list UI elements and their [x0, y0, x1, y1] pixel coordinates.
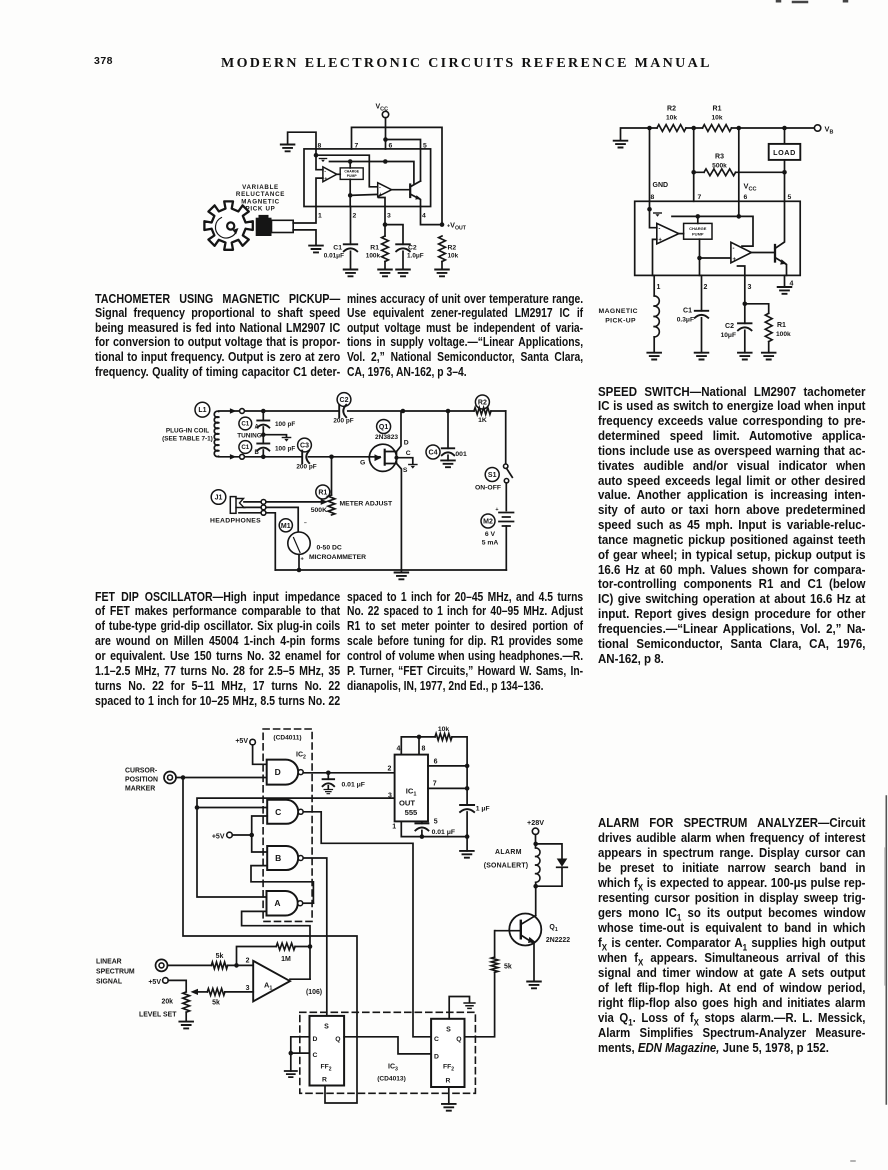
pin 5 label	[788, 194, 792, 201]
connector sleeve	[261, 510, 266, 515]
label VCC	[744, 182, 757, 193]
node Vout	[440, 222, 445, 227]
svg-text:3: 3	[246, 985, 250, 992]
svg-text:R1: R1	[713, 106, 722, 113]
label C1B	[239, 441, 260, 456]
svg-text:5k: 5k	[216, 953, 224, 960]
node R3 right	[782, 170, 787, 175]
svg-text:+: +	[733, 257, 737, 263]
wire gate C upper input	[197, 807, 267, 809]
wire +5V to gate D	[253, 745, 267, 764]
wire pot to ground	[179, 1012, 193, 1028]
label alarm	[484, 849, 529, 870]
svg-text:R1: R1	[777, 322, 786, 329]
wiper arrow R1	[321, 499, 328, 505]
connector tip	[261, 500, 266, 505]
label GND	[653, 182, 669, 189]
node pin8 rail	[417, 735, 422, 740]
pin 2 label A1	[246, 958, 250, 965]
svg-text:7: 7	[698, 194, 702, 201]
wire pump bottom to pin 2	[349, 179, 351, 206]
svg-text:5: 5	[788, 194, 792, 201]
svg-text:6 V: 6 V	[485, 531, 496, 538]
resistor 10k	[435, 726, 452, 740]
meter M1 microammeter	[288, 521, 366, 571]
wire lss to 5k	[168, 964, 212, 966]
node feedback join	[308, 944, 313, 949]
wire pin6	[428, 765, 467, 767]
label G	[360, 460, 365, 467]
svg-text:+5V: +5V	[212, 834, 225, 841]
wire diode branch bottom	[536, 882, 562, 915]
capacitor C2 200pF	[333, 405, 353, 425]
svg-text:POSITION: POSITION	[125, 776, 158, 783]
svg-text:C: C	[434, 1036, 439, 1043]
svg-text:MARKER: MARKER	[125, 785, 155, 792]
wire pin2 down	[350, 207, 352, 245]
transistor Q1 2N2222	[495, 914, 541, 982]
pin 6 label	[744, 194, 748, 201]
wire pin8 vertical	[649, 128, 651, 209]
capacitor C1 0.3uF	[677, 308, 708, 324]
wire 1uF down	[466, 812, 468, 837]
node cursor branch	[181, 775, 186, 780]
wire R1 to ground	[384, 262, 386, 270]
ground left of IC	[281, 132, 316, 155]
svg-text:0.01μF: 0.01μF	[324, 253, 344, 260]
ground C1	[344, 270, 358, 277]
svg-text:(CD4013): (CD4013)	[377, 1076, 406, 1083]
wire internal W1	[316, 155, 378, 187]
wire FF1 D input	[291, 1037, 310, 1071]
FF1 box	[310, 1016, 345, 1086]
svg-text:(106): (106)	[306, 989, 322, 996]
svg-text:1 μF: 1 μF	[476, 806, 490, 813]
svg-text:PICK-UP: PICK-UP	[605, 318, 636, 325]
svg-text:4: 4	[422, 213, 426, 220]
svg-text:Q: Q	[456, 1036, 461, 1043]
switch S1	[504, 464, 513, 511]
pin 5 label	[423, 143, 427, 150]
ground top-left rail	[614, 128, 650, 148]
pin 3 label	[388, 792, 392, 799]
svg-text:C: C	[313, 1052, 318, 1059]
wire C1 to ground	[350, 251, 352, 269]
svg-text:1: 1	[392, 824, 396, 831]
svg-text:10k: 10k	[438, 726, 450, 733]
node meter bottom	[297, 568, 302, 573]
svg-text:1K: 1K	[478, 417, 487, 424]
node alarm bottom	[533, 884, 538, 889]
node rail C4	[446, 409, 451, 414]
wire 5k to pot arrow	[198, 991, 208, 993]
svg-text:5k: 5k	[212, 1000, 220, 1007]
ground pickup	[647, 353, 661, 360]
node R3 left	[691, 170, 696, 175]
wire cursor to gate D	[176, 777, 267, 779]
node rail d	[782, 126, 787, 131]
capacitor 0.01uF pin5	[415, 821, 455, 836]
svg-text:.001: .001	[454, 451, 467, 458]
node plus wire	[697, 256, 702, 261]
resistor 5k level	[207, 989, 225, 1007]
transistor internal	[775, 201, 787, 275]
svg-text:R2: R2	[667, 106, 676, 113]
wire comparator out to pump	[337, 173, 340, 175]
svg-text:ALARM: ALARM	[495, 849, 522, 856]
svg-text:−: −	[304, 521, 307, 527]
label C	[406, 450, 411, 457]
wire load to R3 node	[784, 160, 786, 201]
svg-text:10k: 10k	[666, 115, 677, 122]
svg-text:Q: Q	[335, 1036, 340, 1043]
pin 2 label	[387, 766, 391, 773]
svg-text:-: -	[379, 184, 381, 190]
node gate node	[329, 455, 334, 460]
magnetic pickup body	[256, 215, 294, 236]
ground pickup	[309, 246, 323, 253]
svg-text:5: 5	[423, 143, 427, 150]
node +5V branch	[249, 833, 254, 838]
svg-text:20k: 20k	[162, 999, 174, 1006]
node C1B bottom	[261, 455, 266, 460]
svg-text:C1: C1	[241, 444, 249, 451]
wire internal W2	[330, 162, 414, 184]
wire B lower input loop	[251, 866, 313, 904]
node VCC junction	[383, 137, 388, 142]
svg-text:3: 3	[387, 213, 391, 220]
resistor 5k input	[211, 953, 227, 969]
svg-text:C1: C1	[333, 245, 342, 252]
svg-text:7: 7	[433, 781, 437, 788]
wire base to 5k	[494, 931, 496, 957]
arrow top wire	[230, 408, 236, 413]
wire B out down to FF1 S	[303, 858, 327, 1016]
gear wheel	[204, 201, 252, 249]
pin 7 label	[433, 781, 437, 788]
svg-text:R: R	[446, 1077, 451, 1084]
wire pin3 internal hook	[379, 198, 386, 207]
svg-text:PICK UP: PICK UP	[246, 206, 276, 213]
wire C4 ground	[441, 455, 455, 467]
svg-text:CURSOR-: CURSOR-	[125, 767, 158, 774]
jack J1 phone plug	[230, 497, 244, 514]
svg-text:B: B	[275, 853, 281, 863]
terminal +28V	[527, 818, 544, 835]
wire 5k to FF2 Q	[465, 972, 495, 1036]
wire comparator minus input	[650, 209, 657, 228]
svg-text:200 pF: 200 pF	[333, 418, 353, 425]
node C1 mid	[261, 432, 266, 437]
label R2	[475, 395, 489, 409]
svg-text:500K: 500K	[311, 507, 327, 514]
label IC3	[377, 1064, 406, 1083]
svg-text:5: 5	[434, 819, 438, 826]
wire top rail	[650, 127, 815, 129]
pin 8 label	[318, 143, 322, 150]
wire pin1 bottom rail	[401, 821, 467, 836]
svg-text:+5V: +5V	[148, 979, 161, 986]
inductor L1 plug-in coil	[214, 411, 218, 456]
gate B	[267, 846, 303, 870]
svg-text:-: -	[324, 168, 326, 174]
node cap bottom	[420, 834, 425, 839]
node pin6	[465, 764, 470, 769]
terminal linear spectrum	[156, 959, 168, 971]
svg-text:555: 555	[405, 808, 418, 817]
svg-text:2N2222: 2N2222	[546, 937, 570, 944]
svg-text:+28V: +28V	[527, 818, 544, 827]
node A1 in2	[234, 963, 239, 968]
pin 1 bottom label	[318, 213, 322, 220]
node rail right	[465, 834, 470, 839]
wire coil top rail	[219, 410, 403, 412]
svg-text:C2: C2	[408, 245, 417, 252]
svg-text:+: +	[324, 176, 327, 182]
wire pin7	[428, 787, 467, 789]
svg-text:0.01 μF: 0.01 μF	[342, 782, 365, 789]
svg-text:L1: L1	[198, 407, 206, 414]
wire to switch	[505, 411, 507, 463]
wire opamp out to Q base	[392, 189, 410, 191]
capacitor 0.01uF gate D	[323, 773, 365, 794]
node C1 top	[261, 409, 266, 414]
wire pin7 vertical	[693, 128, 695, 201]
wire pickup to ground	[293, 230, 316, 246]
pin 4 label	[396, 746, 400, 753]
svg-text:CHARGE: CHARGE	[344, 170, 359, 174]
wire A out	[303, 902, 314, 904]
label variable reluctance magnetic pickup	[236, 184, 285, 213]
terminal +5V gates BC	[212, 832, 232, 840]
resistor R2 10k	[657, 106, 686, 132]
svg-text:100 pF: 100 pF	[275, 446, 295, 453]
wire R2 to ground	[441, 262, 443, 270]
box charge pump internal	[340, 168, 363, 180]
label linear spectrum signal	[96, 958, 135, 985]
wire internal W2	[672, 216, 753, 246]
svg-text:4: 4	[396, 746, 400, 753]
wire 28V down	[535, 835, 537, 848]
transistor Q1 2N3823 FET	[369, 412, 413, 570]
battery M2 6V	[482, 507, 514, 570]
svg-text:VCC: VCC	[744, 182, 757, 193]
svg-text:M1: M1	[281, 523, 291, 530]
scan artifact right gutter line	[885, 796, 887, 1104]
wire C1B bottom	[262, 450, 264, 457]
pin 7 label	[698, 194, 702, 201]
pin 6 label	[434, 759, 438, 766]
inductor magnetic pickup	[654, 275, 659, 352]
svg-text:100k: 100k	[776, 331, 791, 338]
wire pin3 down	[744, 275, 746, 323]
wire opamp plus input	[700, 257, 731, 259]
wire FF1 Q to FF2 D	[344, 1037, 431, 1054]
connector circle bottom	[240, 454, 245, 459]
wire pin6 vertical	[738, 128, 740, 216]
svg-text:0-50 DC: 0-50 DC	[317, 545, 342, 552]
wire jack sleeve contact	[239, 513, 275, 570]
svg-text:5k: 5k	[504, 964, 512, 971]
ground R2	[435, 270, 449, 277]
svg-text:G: G	[360, 460, 365, 467]
capacitor 1uF	[460, 805, 490, 813]
svg-text:1: 1	[657, 284, 661, 291]
connector ring	[261, 505, 266, 510]
wire pickup to pin1	[293, 207, 316, 224]
IC U1 LM2907 box	[635, 201, 801, 275]
svg-text:LINEAR: LINEAR	[96, 958, 122, 965]
wire jack ring contact	[244, 507, 298, 531]
wire C2 ground	[738, 330, 752, 359]
FF2 pin labels	[434, 1026, 462, 1084]
wire diode branch top	[536, 844, 562, 859]
label J1	[211, 490, 226, 505]
svg-text:2: 2	[387, 766, 391, 773]
capacitor C1A 100pF	[257, 421, 295, 429]
resistor 1M feedback	[276, 943, 295, 963]
svg-text:C2: C2	[725, 323, 734, 330]
node W2 pump	[348, 159, 353, 164]
svg-text:R: R	[322, 1076, 327, 1083]
op-amp comparator internal	[323, 167, 337, 182]
wire pin3 down	[384, 207, 386, 237]
svg-text:10k: 10k	[711, 115, 722, 122]
svg-text:R1: R1	[370, 245, 379, 252]
node FF1 DC tie	[289, 1051, 294, 1056]
svg-text:S: S	[403, 467, 408, 474]
node pin3 branch	[743, 302, 748, 307]
resistor R2 1K	[403, 408, 506, 424]
node W2 pump	[696, 214, 701, 219]
terminal +5V gate D	[235, 738, 255, 745]
ground pin4	[778, 275, 792, 293]
svg-text:VCC: VCC	[376, 104, 389, 113]
wire pump bottom pin2	[699, 239, 701, 275]
node W2 pin6	[737, 214, 742, 219]
gate A	[267, 891, 303, 916]
label plug-in coil	[162, 428, 213, 443]
op-amp comparator internal	[657, 223, 679, 244]
svg-text:S: S	[324, 1023, 329, 1030]
wire rail to C4	[447, 411, 449, 448]
gate C	[267, 800, 303, 824]
svg-text:Q1: Q1	[379, 424, 388, 431]
label C4	[426, 445, 440, 459]
wire +5V to pot	[168, 980, 186, 992]
pin 2 bottom label	[353, 213, 357, 220]
ground FF2 S	[464, 1003, 475, 1008]
svg-text:+: +	[658, 238, 662, 244]
svg-text:LOAD: LOAD	[773, 148, 796, 157]
node pin8 internal	[647, 207, 652, 212]
svg-text:GND: GND	[653, 182, 669, 189]
pin 7 label	[355, 143, 359, 150]
label headphones	[210, 518, 261, 525]
svg-text:J1: J1	[215, 495, 223, 502]
wire cursor long vertical	[183, 778, 357, 1104]
svg-text:+: +	[301, 557, 305, 563]
wire pin2 down	[701, 275, 703, 310]
svg-text:PUMP: PUMP	[347, 174, 358, 178]
svg-text:MICROAMMETER: MICROAMMETER	[309, 554, 366, 561]
wire 1M loop	[237, 947, 311, 966]
wire bottom rail	[275, 569, 506, 571]
node rail b	[691, 126, 696, 131]
label L1	[195, 402, 210, 417]
svg-text:RELUCTANCE: RELUCTANCE	[236, 191, 285, 198]
svg-text:VARIABLE: VARIABLE	[242, 184, 279, 191]
label +Vout	[447, 221, 467, 232]
svg-text:CHARGE: CHARGE	[689, 226, 707, 231]
wiper arrow 20k	[191, 989, 199, 995]
arrow bottom wire	[230, 454, 236, 459]
wire VCC to pin 6	[385, 118, 387, 149]
wire C1 mid	[262, 427, 264, 444]
svg-text:PUMP: PUMP	[692, 232, 704, 237]
wire A lower input loop	[242, 911, 310, 979]
wire comparator plus input pin1	[316, 178, 323, 206]
op-amp A1	[253, 961, 322, 1002]
label S	[403, 467, 408, 474]
wire opamp out	[751, 252, 773, 254]
svg-text:D: D	[404, 440, 409, 447]
svg-text:10k: 10k	[448, 253, 459, 260]
wire D out to IC1 pin2	[303, 772, 394, 774]
ground Q1 emitter	[527, 982, 541, 989]
svg-text:A: A	[274, 898, 280, 908]
ground internal tiny	[654, 213, 662, 217]
wire C2 to ground	[402, 251, 404, 269]
label D	[404, 440, 409, 447]
pin 4 label	[790, 281, 794, 288]
pin 8 label	[651, 194, 655, 201]
wire opamp plus input	[350, 194, 378, 195]
pin 3 label A1	[246, 985, 250, 992]
svg-text:8: 8	[651, 194, 655, 201]
capacitor C2 1.0uF	[396, 244, 424, 259]
wire 5k to pin2	[228, 964, 254, 966]
svg-text:1.0μF: 1.0μF	[407, 253, 424, 260]
wire jack tip contact	[244, 501, 323, 503]
ground internal tiny	[319, 159, 326, 163]
svg-text:0.01 μF: 0.01 μF	[432, 829, 455, 836]
svg-text:2: 2	[353, 213, 357, 220]
wire R1 ground	[762, 342, 776, 360]
label Q1	[546, 924, 570, 944]
wire comparator out	[679, 233, 684, 235]
wire C2 branch	[385, 225, 403, 245]
resistor R1 10k	[703, 106, 732, 132]
svg-text:Q1: Q1	[549, 924, 557, 933]
potentiometer R1 500K	[311, 457, 393, 515]
svg-text:5 mA: 5 mA	[482, 540, 499, 547]
IC1 555 box	[395, 755, 428, 822]
ground FET case	[409, 465, 417, 469]
wire coil bottom rail	[219, 456, 369, 458]
svg-text:C: C	[275, 807, 281, 817]
svg-text:100k: 100k	[366, 253, 381, 260]
ground FF1 D	[285, 1071, 297, 1077]
wire top rail pin7 to Vout	[352, 127, 443, 224]
svg-text:R2: R2	[448, 245, 457, 252]
wire IC1 pin3 to gates	[197, 798, 394, 897]
box IC2 CD4011 dashed	[263, 729, 312, 921]
label M1	[279, 519, 292, 532]
capacitor C2 10uF	[721, 323, 752, 339]
svg-text:7: 7	[355, 143, 359, 150]
wire R1 branch	[745, 304, 769, 314]
